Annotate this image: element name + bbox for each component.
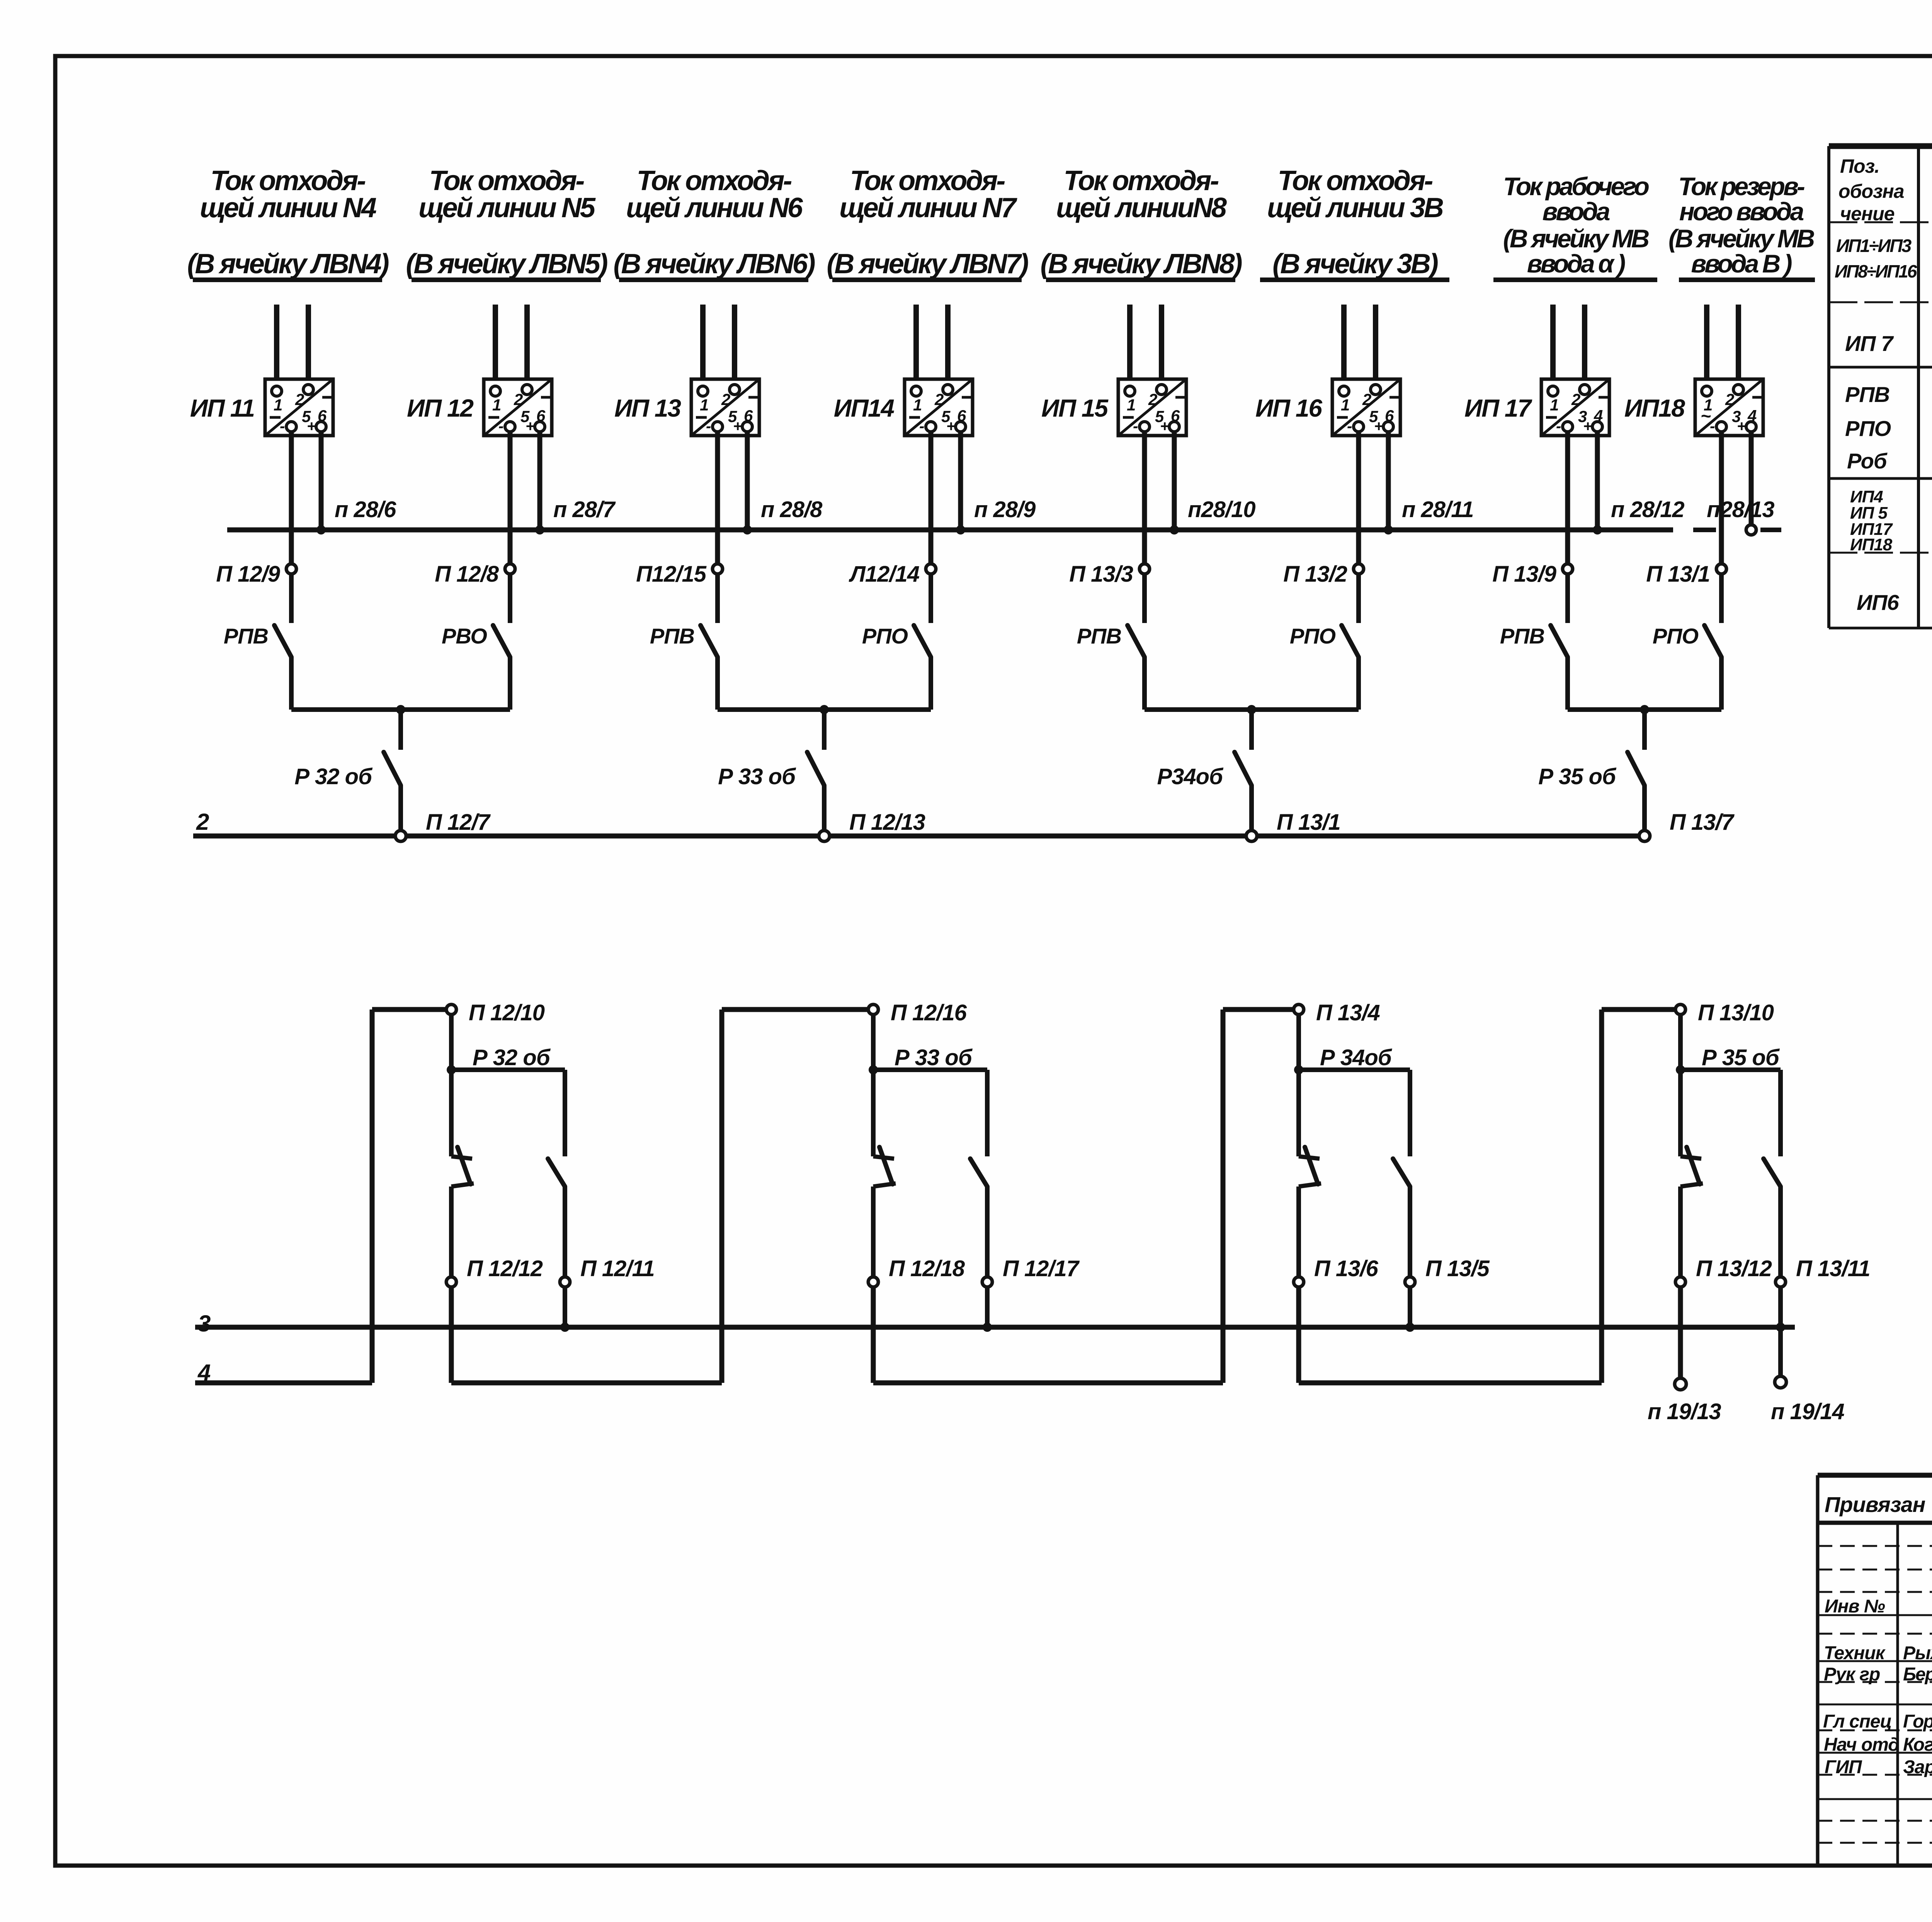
wire [1408,1287,1412,1327]
junction [396,705,405,714]
svg-text:РПВ: РПВ [1077,624,1121,648]
wire [1778,1287,1783,1327]
wire [449,1187,454,1277]
wire [449,1287,454,1383]
wire [1356,657,1361,710]
svg-text:(В ячейку ЛВN5): (В ячейку ЛВN5) [406,249,607,279]
svg-text:РПО: РПО [1290,624,1336,648]
wire [1778,1187,1783,1277]
svg-text:Рыжкова: Рыжкова [1903,1643,1932,1663]
wire [715,657,720,710]
svg-text:П 13/12: П 13/12 [1696,1256,1772,1281]
wire [1142,432,1147,564]
wire [871,1187,876,1277]
wire (riser from bus 4) [1599,1010,1604,1383]
svg-text:П 13/1: П 13/1 [1277,810,1340,835]
svg-text:ИП 13: ИП 13 [614,394,681,422]
junction [447,1065,456,1074]
wire [1356,574,1361,623]
svg-text:чение: чение [1840,203,1895,225]
svg-text:п 28/8: п 28/8 [761,497,823,522]
svg-text:ИП 16: ИП 16 [1255,394,1322,422]
wire [871,1287,876,1383]
terminal П 13/2 [1354,564,1364,574]
svg-text:п 19/14: п 19/14 [1771,1399,1844,1424]
svg-text:П 13/6: П 13/6 [1314,1256,1378,1281]
wire [563,1187,567,1277]
svg-text:Р 35 об: Р 35 об [1702,1045,1780,1070]
svg-text:-: - [919,418,924,435]
terminal П 13/5 [1405,1277,1415,1287]
svg-text:Гл спец: Гл спец [1823,1711,1892,1732]
svg-text:п 28/6: п 28/6 [335,497,396,522]
svg-text:(В ячейку МВ: (В ячейку МВ [1668,224,1815,253]
wire (riser from bus 4) [719,1010,724,1383]
contact РПВ [1551,625,1568,657]
contact Р 32 об [384,752,401,785]
svg-text:Р 35 об: Р 35 об [1538,764,1617,789]
node п28/10 junction [1170,525,1179,535]
wire [1778,1070,1783,1156]
svg-text:П 12/16: П 12/16 [891,1000,967,1025]
terminal Л12/14 [926,564,936,574]
wire [715,574,720,623]
svg-text:+: + [307,418,316,435]
wire [1719,432,1724,564]
wire [1249,785,1254,831]
svg-text:РПВ: РПВ [1500,624,1544,648]
contact Р 33 об [807,752,824,785]
svg-text:Рук гр: Рук гр [1824,1664,1880,1685]
svg-text:Зарецкий: Зарецкий [1903,1757,1932,1777]
wire [1582,305,1587,385]
svg-text:Гороховский: Гороховский [1903,1711,1932,1732]
wire [1680,1067,1781,1072]
svg-text:РПО: РПО [862,624,908,648]
contact РПО [1342,625,1359,657]
junction [820,705,829,714]
terminal п 19/13 [1675,1378,1686,1390]
svg-text:Ток отходя-: Ток отходя- [637,165,792,196]
wire [563,1287,567,1327]
svg-text:П 12/13: П 12/13 [849,810,925,835]
wire [1719,574,1724,623]
svg-text:Р34об: Р34об [1157,764,1224,789]
bus 4 segment [1299,1381,1602,1386]
node label: feeder caption column 5 [1040,165,1242,280]
svg-text:ввода α ): ввода α ) [1527,249,1626,278]
svg-text:6: 6 [536,407,546,425]
svg-text:ИП 7: ИП 7 [1845,331,1894,356]
wire [1565,657,1570,710]
svg-text:П12/15: П12/15 [636,562,707,587]
svg-text:ИП8÷ИП16: ИП8÷ИП16 [1835,261,1917,281]
svg-text:(В ячейку ЛВN8): (В ячейку ЛВN8) [1040,249,1242,279]
wire [274,305,279,387]
wire [1595,432,1600,530]
svg-text:+: + [526,418,534,435]
wire [398,710,403,750]
node label: feeder caption column 3 [613,165,815,280]
wire (riser from bus 4) [370,1010,375,1383]
wire [537,432,543,530]
node label: feeder caption column 7 [1493,172,1657,280]
svg-text:2: 2 [934,390,944,409]
wire [929,432,934,564]
wire [1296,1015,1301,1070]
wire [493,305,498,387]
svg-text:Р 33 об: Р 33 об [895,1045,973,1070]
junction [1294,1065,1303,1074]
svg-text:1: 1 [1550,396,1559,414]
wire [1568,707,1721,712]
bus 4 segment [451,1381,722,1386]
wire [1223,1007,1294,1012]
wire [508,657,512,710]
wire [1642,785,1647,831]
svg-text:2: 2 [721,390,730,409]
contact Р 32 об (make) [548,1159,565,1187]
wire [1408,1070,1412,1156]
svg-text:п 28/11: п 28/11 [1402,497,1473,522]
wire [1678,1287,1683,1378]
contact Р 33 об (make) [970,1159,987,1187]
node label: feeder caption column 6 [1260,165,1449,280]
svg-text:П 12/7: П 12/7 [426,810,491,835]
terminal П 13/4 [1294,1004,1304,1015]
wire [289,657,294,710]
wire [913,305,919,387]
svg-text:П 12/10: П 12/10 [469,1000,545,1025]
svg-text:П 12/11: П 12/11 [580,1256,655,1281]
svg-text:6: 6 [744,407,753,425]
junction on bus 3 [1405,1323,1415,1332]
wire [1386,432,1391,530]
wire [398,785,403,831]
wire [1249,710,1254,750]
svg-text:(В ячейку ЛВN7): (В ячейку ЛВN7) [827,249,1028,279]
transducer ИП14 (measuring converter) [905,379,973,436]
svg-text:щей линии N6: щей линии N6 [626,192,803,223]
wire [319,432,324,530]
wire [732,305,737,385]
svg-text:Ток отходя-: Ток отходя- [1278,165,1433,196]
terminal П 12/16 [868,1004,878,1015]
svg-text:п28/10: п28/10 [1188,497,1255,522]
svg-text:+: + [733,418,742,435]
svg-text:П 13/2: П 13/2 [1283,562,1347,587]
svg-text:РПВ: РПВ [224,624,268,648]
svg-text:щей линии N4: щей линии N4 [200,192,376,223]
contact Р 34об (make) [1393,1159,1410,1187]
terminal П 12/17 [982,1277,992,1287]
wire [722,1007,868,1012]
wire [508,574,512,623]
svg-text:Техник: Техник [1824,1643,1886,1663]
svg-text:Ток резерв-: Ток резерв- [1678,172,1805,201]
svg-text:Инв №: Инв № [1825,1596,1885,1617]
terminal П 13/3 [1139,564,1150,574]
svg-text:-: - [706,418,711,435]
bus 4 [195,1381,372,1386]
wire [822,785,827,831]
junction on bus 3 [560,1323,570,1332]
wire [1565,574,1570,623]
wire [929,657,933,710]
wire [1678,1070,1683,1156]
wire [306,305,311,385]
svg-text:-: - [498,418,503,435]
svg-text:Ток рабочего: Ток рабочего [1503,172,1649,201]
junction on bus 3 [1776,1323,1785,1332]
svg-text:ввода: ввода [1543,197,1610,226]
svg-text:Р 32 об: Р 32 об [294,764,373,789]
terminal П 13/11 [1776,1277,1786,1287]
svg-text:РПВ: РПВ [1845,382,1889,407]
svg-text:6: 6 [318,407,327,425]
svg-text:4: 4 [197,1360,211,1386]
svg-text:1: 1 [492,396,501,414]
svg-text:П 12/9: П 12/9 [216,562,280,587]
contact Р34об [1235,752,1252,785]
svg-text:ИП 12: ИП 12 [407,394,473,422]
contact Р 32 об (break) [451,1156,472,1159]
terminal П 12/10 [446,1004,456,1015]
transducer ИП 16 (measuring converter) [1332,379,1400,436]
contact Р 33 об (break) [873,1156,894,1159]
svg-text:Р 32 об: Р 32 об [473,1045,551,1070]
wire [985,1287,990,1327]
wire [945,305,951,385]
svg-text:ИП1÷ИП3: ИП1÷ИП3 [1836,235,1912,256]
transducer ИП 15 (measuring converter) [1118,379,1186,436]
svg-text:щей линииN8: щей линииN8 [1056,192,1227,223]
svg-text:РПО: РПО [1845,416,1891,441]
svg-text:п 28/9: п 28/9 [974,497,1036,522]
wire [822,710,827,750]
terminal П 13/6 [1294,1277,1304,1287]
terminal П 13/10 [1675,1004,1685,1015]
wire [1704,305,1709,387]
wire [985,1070,990,1156]
contact РПО [1704,625,1721,657]
contact РПВ [701,625,718,657]
wire [451,1067,565,1072]
wire [871,1070,876,1156]
svg-text:П 13/9: П 13/9 [1492,562,1556,587]
wire [715,432,720,564]
svg-text:П 13/5: П 13/5 [1425,1256,1490,1281]
node п 28/6 junction [316,525,326,535]
wire [1296,1070,1301,1156]
svg-text:щей линии 3В: щей линии 3В [1267,192,1443,223]
svg-text:П 12/18: П 12/18 [889,1256,965,1281]
junction [1640,705,1649,714]
wire [1127,305,1133,387]
bus 3 [195,1325,1795,1330]
transducer ИП 11 (measuring converter) [265,379,333,436]
wire [1642,710,1647,750]
svg-text:ГИП: ГИП [1825,1757,1862,1777]
contact РПВ [274,625,291,657]
svg-text:1: 1 [700,396,709,414]
svg-text:-: - [280,418,285,435]
wire [1565,432,1570,564]
junction on bus 3 [983,1323,992,1332]
junction [869,1065,878,1074]
wire [1550,305,1556,387]
bus 4 segment [873,1381,1223,1386]
node п 28/8 junction [743,525,752,535]
wire [1296,1187,1301,1277]
wire [1356,432,1361,564]
terminal П 12/9 [286,564,296,574]
svg-text:п 28/12: п 28/12 [1611,497,1684,522]
svg-text:ИП 11: ИП 11 [190,394,254,422]
contact РПО [914,625,931,657]
svg-text:П 13/4: П 13/4 [1316,1000,1380,1025]
svg-text:Коган: Коган [1903,1735,1932,1755]
wire [1719,657,1724,710]
svg-text:Л12/14: Л12/14 [849,562,920,587]
terminal П 13/1 [1716,564,1726,574]
svg-text:Привязан: Привязан [1825,1492,1925,1517]
svg-text:п28/13: п28/13 [1707,497,1774,522]
wire [1602,1007,1675,1012]
wire [563,1070,567,1156]
bus 1 (measuring output common line) [227,528,1673,533]
svg-text:щей линии N5: щей линии N5 [418,192,596,223]
contact Р 35 об (break) [1680,1156,1701,1159]
svg-text:Роб: Роб [1847,449,1888,473]
transducer ИП 13 (measuring converter) [691,379,759,436]
svg-text:ввода В ): ввода В ) [1691,249,1792,278]
svg-text:П 13/7: П 13/7 [1670,810,1735,835]
svg-text:ИП 15: ИП 15 [1041,394,1109,422]
svg-text:-: - [1347,418,1352,435]
terminal П12/15 [713,564,723,574]
title block: registration table [1818,1475,1932,1866]
svg-text:П 12/17: П 12/17 [1003,1256,1080,1281]
svg-text:(В ячейку 3В): (В ячейку 3В) [1272,249,1438,279]
contact Р 34об (break) [1299,1156,1320,1159]
terminal П 12/8 [505,564,515,574]
wire [524,305,530,385]
wire [985,1187,990,1277]
wire [1159,305,1164,385]
svg-text:+: + [1583,418,1592,435]
wire [1341,305,1347,387]
wire [1678,1187,1683,1277]
svg-text:П 13/1: П 13/1 [1646,562,1710,587]
contact Р 35 об [1628,752,1645,785]
svg-text:щей линии N7: щей линии N7 [839,192,1017,223]
svg-text:1: 1 [1341,396,1350,414]
svg-text:П 12/12: П 12/12 [467,1256,543,1281]
node label: feeder caption column 1 [187,165,388,280]
contact Р 35 об (make) [1764,1159,1781,1187]
wire [449,1070,454,1156]
svg-text:3: 3 [198,1311,211,1336]
svg-text:2: 2 [1148,390,1157,409]
bus 2 [193,834,395,839]
wire [1142,574,1147,623]
svg-text:Поз.: Поз. [1840,155,1879,177]
parts table rows text [1835,234,1932,637]
wire [1145,707,1359,712]
wire [289,432,294,564]
terminal П 12/13 on bus 2 [819,831,830,841]
wire [291,707,510,712]
svg-text:2: 2 [295,390,304,409]
wire [1299,1067,1410,1072]
contact РВО [493,625,510,657]
svg-text:Р 33 об: Р 33 об [718,764,796,789]
node п 28/7 junction [535,525,544,535]
svg-text:п 28/7: п 28/7 [553,497,616,522]
svg-text:-: - [1710,418,1715,435]
wire [873,1067,987,1072]
svg-text:1: 1 [1127,396,1136,414]
wire [1736,305,1741,385]
wire [1778,1327,1783,1376]
terminal П 13/7 on bus 2 [1639,831,1650,841]
svg-text:П 13/11: П 13/11 [1796,1256,1870,1281]
wire [1749,432,1754,530]
svg-text:П 13/3: П 13/3 [1069,562,1133,587]
svg-text:Ток отходя-: Ток отходя- [429,165,584,196]
svg-text:ИП18: ИП18 [1850,535,1893,554]
junction [1247,705,1256,714]
terminal п 19/14 [1775,1376,1786,1388]
svg-text:2: 2 [196,809,209,835]
junction [1676,1065,1685,1074]
svg-text:-: - [1556,418,1561,435]
node label: feeder caption column 8 [1668,172,1815,280]
wire [508,432,513,564]
svg-text:6: 6 [1171,407,1180,425]
svg-text:РВО: РВО [442,624,487,648]
wire (riser from bus 4) [1221,1010,1226,1383]
svg-text:обозна: обозна [1838,180,1904,202]
wire [700,305,706,387]
svg-text:(В ячейку ЛВN4): (В ячейку ЛВN4) [187,249,388,279]
svg-text:2: 2 [514,390,523,409]
node label: feeder caption column 2 [406,165,607,280]
wire [745,432,750,530]
node п 28/9 junction [956,525,965,535]
svg-text:+: + [1737,418,1746,435]
wire [1142,657,1147,710]
svg-text:Ток отходя-: Ток отходя- [850,165,1005,196]
wire [1408,1187,1412,1277]
node п 28/11 junction [1384,525,1393,535]
svg-text:ного ввода: ного ввода [1679,197,1804,226]
svg-text:6: 6 [1385,407,1394,425]
wire [449,1015,454,1070]
wire [871,1015,876,1070]
svg-text:2: 2 [1725,390,1734,409]
terminal П 12/12 [446,1277,456,1287]
transducer ИП 12 (measuring converter) [484,379,552,436]
svg-text:П 12/8: П 12/8 [435,562,499,587]
svg-text:П 13/10: П 13/10 [1698,1000,1774,1025]
svg-text:+: + [1374,418,1383,435]
svg-text:+: + [1160,418,1169,435]
terminal п28/13 [1746,525,1756,535]
wire [718,707,931,712]
svg-text:2: 2 [1362,390,1371,409]
